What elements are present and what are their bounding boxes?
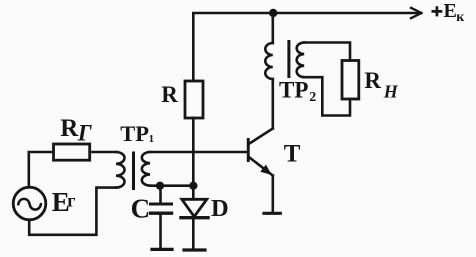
svg-text:H: H — [383, 82, 399, 102]
wire base line from TP1 secondary to transistor — [150, 151, 247, 154]
svg-text:R: R — [60, 115, 79, 142]
svg-text:1: 1 — [149, 133, 155, 145]
wire collector to TP2 primary — [271, 79, 274, 129]
svg-text:E: E — [444, 0, 457, 22]
svg-text:R: R — [364, 68, 381, 93]
wire TP2 primary top to rail junction — [271, 13, 274, 43]
transistor T — [247, 138, 250, 162]
svg-text:C: C — [131, 194, 151, 224]
ground emitter terminal — [264, 212, 280, 215]
transformer TP2 secondary winding — [297, 43, 305, 78]
node +Ek arrow — [411, 8, 422, 18]
net +Ek label — [432, 6, 443, 16]
svg-text:TP: TP — [279, 77, 308, 102]
ground capacitor terminal — [152, 248, 172, 251]
resistor RG — [54, 144, 90, 160]
transformer TP2 primary winding — [265, 43, 273, 79]
svg-text:к: к — [456, 10, 465, 25]
wire RG right to TP1 primary — [90, 151, 116, 154]
svg-text:D: D — [211, 195, 229, 222]
wire top supply rail — [193, 13, 420, 81]
wire RG left to generator — [29, 152, 54, 187]
generator EG — [13, 187, 46, 220]
svg-text:Г: Г — [77, 121, 92, 146]
wire TP2 secondary top to Rn — [304, 43, 350, 61]
resistor R — [185, 81, 203, 118]
svg-text:R: R — [161, 82, 178, 107]
svg-text:T: T — [284, 141, 301, 168]
svg-text:2: 2 — [309, 90, 316, 105]
junction capacitor node — [156, 182, 164, 190]
transformer TP1 core — [132, 152, 135, 191]
junction diode node — [189, 182, 197, 190]
wire Rn bottom loop to TP2 secondary bottom — [304, 77, 350, 115]
diode D — [192, 186, 195, 200]
transformer TP2 core — [287, 40, 290, 78]
transformer TP1 secondary winding — [142, 152, 150, 186]
wire TP1 secondary bottom to C and D — [150, 184, 196, 187]
wire generator bottom loop to TP1 primary bottom — [29, 188, 116, 235]
junction collector branch on supply rail — [269, 9, 277, 17]
transformer TP1 primary winding — [116, 152, 125, 188]
resistor Rn — [342, 61, 359, 100]
wire R bottom to diode node — [192, 118, 195, 186]
svg-text:TP: TP — [120, 121, 149, 146]
ground diode terminal — [184, 248, 205, 251]
svg-text:г: г — [67, 191, 75, 211]
capacitor C — [159, 186, 162, 203]
